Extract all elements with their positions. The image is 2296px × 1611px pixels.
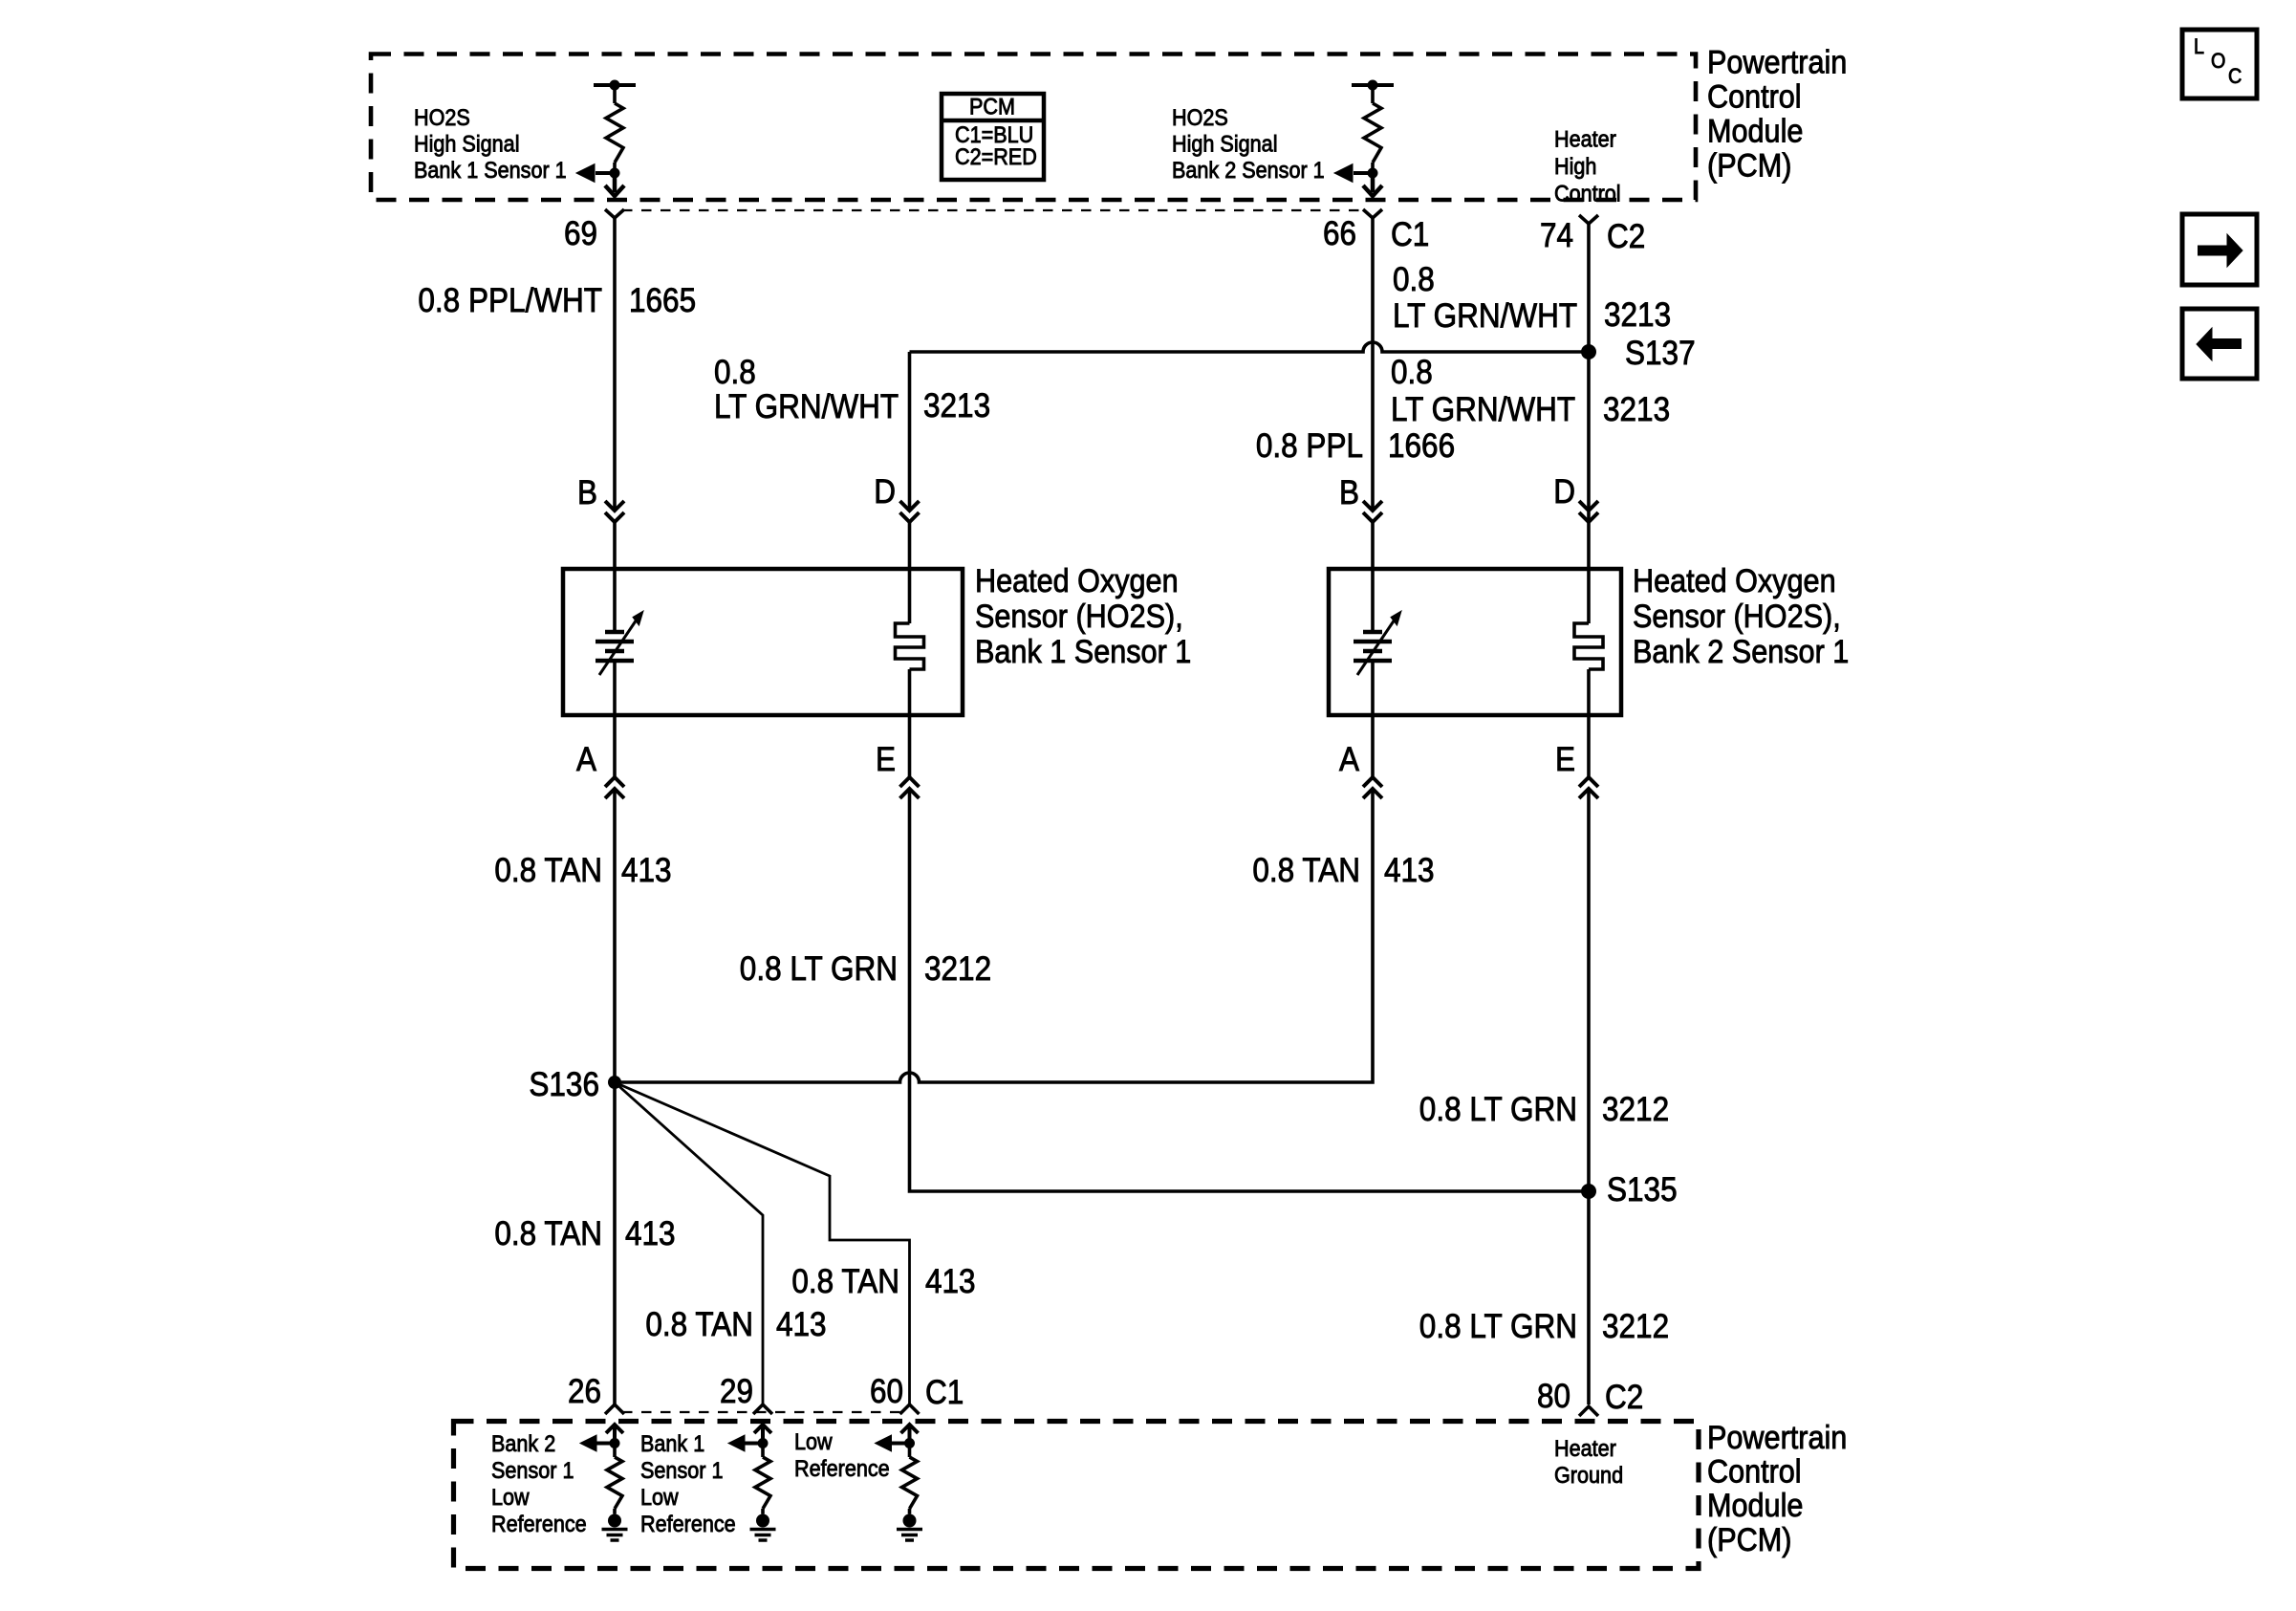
svg-text:Bank 1 Sensor 1: Bank 1 Sensor 1: [414, 158, 567, 184]
svg-text:69: 69: [564, 215, 597, 252]
svg-text:Reference: Reference: [640, 1512, 736, 1537]
svg-text:High Signal: High Signal: [414, 132, 520, 158]
svg-text:C1: C1: [925, 1374, 964, 1411]
svg-text:Heated Oxygen: Heated Oxygen: [975, 563, 1179, 599]
svg-text:Powertrain: Powertrain: [1707, 1420, 1847, 1456]
svg-text:High Signal: High Signal: [1172, 132, 1278, 158]
svg-text:E: E: [1555, 741, 1575, 778]
svg-text:Sensor (HO2S),: Sensor (HO2S),: [975, 599, 1183, 635]
svg-text:3212: 3212: [1602, 1091, 1669, 1128]
svg-text:66: 66: [1323, 215, 1356, 252]
svg-text:3213: 3213: [923, 387, 990, 425]
svg-text:Low: Low: [491, 1485, 530, 1511]
svg-text:0.8 PPL: 0.8 PPL: [1256, 427, 1363, 465]
svg-text:Control: Control: [1554, 182, 1621, 207]
svg-text:C2: C2: [1607, 218, 1645, 255]
svg-text:B: B: [1339, 474, 1359, 512]
svg-text:80: 80: [1537, 1378, 1570, 1415]
svg-text:0.8 LT GRN: 0.8 LT GRN: [740, 950, 898, 988]
svg-text:Low: Low: [640, 1485, 679, 1511]
svg-text:Control: Control: [1707, 79, 1802, 116]
svg-text:Low: Low: [794, 1429, 833, 1455]
svg-text:0.8 TAN: 0.8 TAN: [494, 852, 602, 889]
svg-text:0.8 TAN: 0.8 TAN: [791, 1263, 899, 1300]
svg-text:C: C: [2228, 64, 2242, 88]
svg-text:60: 60: [870, 1373, 903, 1410]
svg-text:29: 29: [720, 1373, 753, 1410]
svg-text:HO2S: HO2S: [1172, 105, 1228, 131]
svg-text:A: A: [576, 741, 597, 778]
svg-text:S137: S137: [1625, 335, 1696, 372]
svg-text:HO2S: HO2S: [414, 105, 470, 131]
svg-text:Heater: Heater: [1554, 127, 1616, 153]
svg-text:S136: S136: [529, 1066, 599, 1103]
svg-text:413: 413: [621, 852, 672, 889]
svg-text:Reference: Reference: [491, 1512, 587, 1537]
svg-text:0.8: 0.8: [714, 354, 756, 391]
svg-text:D: D: [1553, 473, 1575, 511]
svg-text:Control: Control: [1707, 1454, 1802, 1491]
svg-text:C2=RED: C2=RED: [955, 144, 1037, 170]
svg-text:0.8 TAN: 0.8 TAN: [494, 1215, 602, 1252]
svg-text:3213: 3213: [1603, 391, 1670, 428]
svg-text:Bank 2: Bank 2: [491, 1431, 555, 1457]
svg-text:413: 413: [625, 1215, 676, 1252]
svg-text:Ground: Ground: [1554, 1463, 1623, 1489]
svg-text:Powertrain: Powertrain: [1707, 45, 1847, 81]
svg-text:74: 74: [1540, 217, 1573, 254]
svg-text:O: O: [2211, 49, 2225, 73]
svg-text:Module: Module: [1707, 1488, 1803, 1524]
svg-text:26: 26: [568, 1373, 601, 1410]
svg-text:B: B: [577, 474, 597, 512]
svg-text:3212: 3212: [1602, 1308, 1669, 1345]
svg-text:Sensor 1: Sensor 1: [491, 1458, 574, 1484]
svg-text:0.8: 0.8: [1393, 261, 1435, 298]
svg-text:Sensor 1: Sensor 1: [640, 1458, 724, 1484]
svg-text:C2: C2: [1605, 1379, 1643, 1416]
svg-text:(PCM): (PCM): [1707, 1522, 1791, 1558]
svg-text:Module: Module: [1707, 114, 1803, 150]
svg-text:LT GRN/WHT: LT GRN/WHT: [1391, 391, 1575, 428]
svg-text:S135: S135: [1607, 1171, 1678, 1208]
svg-text:A: A: [1339, 741, 1360, 778]
svg-text:0.8 LT GRN: 0.8 LT GRN: [1419, 1091, 1577, 1128]
svg-text:Bank 2 Sensor 1: Bank 2 Sensor 1: [1172, 158, 1325, 184]
svg-text:1666: 1666: [1388, 427, 1455, 465]
svg-text:0.8 PPL/WHT: 0.8 PPL/WHT: [418, 282, 602, 319]
svg-text:413: 413: [925, 1263, 976, 1300]
svg-text:Bank 2 Sensor 1: Bank 2 Sensor 1: [1633, 634, 1849, 670]
svg-text:High: High: [1554, 154, 1596, 180]
svg-text:Bank 1: Bank 1: [640, 1431, 704, 1457]
svg-text:LT GRN/WHT: LT GRN/WHT: [1393, 297, 1577, 335]
svg-text:Heater: Heater: [1554, 1436, 1616, 1462]
svg-text:0.8 LT GRN: 0.8 LT GRN: [1419, 1308, 1577, 1345]
svg-text:PCM: PCM: [969, 95, 1015, 120]
svg-text:3212: 3212: [924, 950, 991, 988]
svg-text:Heated Oxygen: Heated Oxygen: [1633, 563, 1836, 599]
svg-text:413: 413: [776, 1306, 827, 1343]
svg-text:413: 413: [1384, 852, 1435, 889]
svg-text:D: D: [874, 473, 896, 511]
svg-text:0.8: 0.8: [1391, 354, 1433, 391]
svg-text:Reference: Reference: [794, 1456, 890, 1482]
svg-text:0.8 TAN: 0.8 TAN: [645, 1306, 753, 1343]
svg-text:(PCM): (PCM): [1707, 148, 1791, 185]
svg-text:3213: 3213: [1604, 296, 1671, 334]
svg-text:L: L: [2194, 34, 2204, 58]
svg-text:C1: C1: [1391, 216, 1429, 253]
svg-text:E: E: [876, 741, 896, 778]
svg-text:1665: 1665: [629, 282, 696, 319]
svg-text:0.8 TAN: 0.8 TAN: [1252, 852, 1360, 889]
svg-text:Sensor (HO2S),: Sensor (HO2S),: [1633, 599, 1841, 635]
svg-text:Bank 1 Sensor 1: Bank 1 Sensor 1: [975, 634, 1191, 670]
svg-text:LT GRN/WHT: LT GRN/WHT: [714, 388, 899, 425]
